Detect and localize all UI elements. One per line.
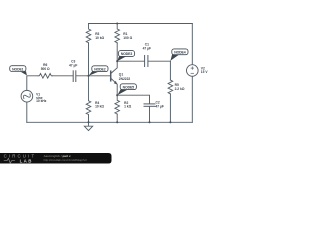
wire C3 to base (76, 75, 110, 77)
junction bottom rail / C2 (148, 121, 150, 123)
node NODE4 (170, 49, 188, 61)
wire NODE4 corner down (169, 61, 171, 80)
node NODE3 (117, 51, 134, 62)
resistor R3 (86, 24, 91, 44)
resistor R1 (115, 24, 120, 44)
node NODE5 (117, 84, 136, 95)
svg-text:NODE3: NODE3 (121, 52, 132, 56)
svg-text:15 V: 15 V (201, 70, 209, 74)
svg-text:47 µF: 47 µF (69, 63, 77, 67)
junction top rail / R1 (116, 22, 118, 24)
junction bottom rail / R4 / ground (87, 121, 89, 123)
wire R4 to rail (88, 115, 90, 123)
svg-text:10 kHz: 10 kHz (36, 99, 47, 103)
wire V1 top to NODE1 corner (27, 76, 38, 91)
node NODE1 (10, 66, 27, 76)
wire top rail (89, 23, 193, 25)
wire V2 bottom (191, 76, 193, 122)
wire R1 to collector junction (116, 43, 118, 61)
capacitor C1 (145, 56, 148, 67)
svg-text:http://circuitlab.com/c/nrxk66: http://circuitlab.com/c/nrxk662ap7u3 (44, 158, 88, 162)
svg-text:47 µF: 47 µF (143, 46, 151, 50)
svg-text:1 kΩ: 1 kΩ (124, 105, 132, 109)
junction bottom rail / R5 (169, 121, 171, 123)
wire V1 bottom (26, 102, 28, 122)
svg-text:10 kΩ: 10 kΩ (95, 36, 104, 40)
capacitor C3 (73, 71, 76, 82)
wire collector row (117, 60, 144, 62)
junction bottom rail / R2 (116, 121, 118, 123)
resistor R2 (115, 95, 120, 114)
wire R3 to base junction (88, 43, 90, 76)
watermark logo waveform (4, 158, 15, 163)
svg-text:500 Ω: 500 Ω (41, 67, 50, 71)
transistor Q1 (111, 61, 118, 95)
svg-text:LAB: LAB (20, 158, 33, 163)
svg-text:47 µF: 47 µF (156, 104, 164, 108)
junction node B (R3/R4/base) (87, 75, 89, 77)
wire C2 to rail (149, 107, 151, 123)
svg-text:100 Ω: 100 Ω (123, 36, 132, 40)
voltage source V2 (187, 65, 199, 77)
svg-text:NODE2: NODE2 (94, 67, 105, 71)
watermark bar (0, 153, 112, 164)
svg-text:2.2 kΩ: 2.2 kΩ (175, 87, 185, 91)
node NODE2 (89, 66, 108, 76)
junction collector / R1 / C1 (116, 60, 118, 62)
ground (84, 122, 92, 130)
svg-text:2N2222: 2N2222 (119, 77, 131, 81)
svg-text:NODE4: NODE4 (174, 51, 185, 55)
wire R5 to rail (169, 94, 171, 122)
wire bottom rail (27, 121, 193, 123)
svg-text:NODE1: NODE1 (12, 67, 23, 71)
wire R2 to rail (116, 114, 118, 122)
wire emitter row to C2 (117, 95, 149, 103)
svg-text:AasmingGfx / part c: AasmingGfx / part c (44, 154, 71, 158)
resistor R6 (38, 74, 52, 79)
wire C1 to NODE4 corner (148, 60, 170, 62)
svg-text:10 kΩ: 10 kΩ (95, 105, 104, 109)
wire R6 to C3 (52, 75, 72, 77)
wire V2 top (191, 24, 193, 65)
resistor R5 (168, 80, 173, 94)
resistor R4 (86, 76, 91, 115)
junction emitter / R2 / C2 (116, 94, 118, 96)
capacitor C2 (144, 104, 155, 106)
svg-text:NODE5: NODE5 (123, 85, 134, 89)
voltage source V1 (21, 90, 33, 102)
